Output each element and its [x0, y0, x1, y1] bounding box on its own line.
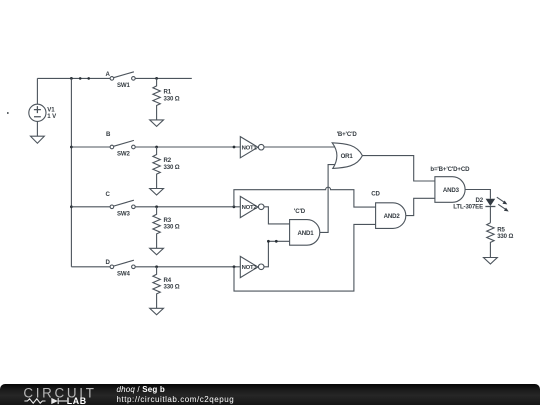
and-gate AND1: [290, 220, 320, 246]
bus vertical wire: [70, 78, 72, 266]
node D branch wire to AND2 lower input: [234, 224, 376, 291]
wire OR1 output to AND3 upper input: [362, 156, 435, 181]
switch SW4: [110, 260, 135, 268]
inverter NOT3: [240, 256, 264, 277]
or-gate OR1: [332, 143, 362, 169]
ground below R5: [484, 258, 498, 265]
junction dot R2 tap: [155, 146, 158, 149]
switch SW2: [110, 140, 135, 148]
and-gate AND3: [435, 177, 465, 203]
svg-text:A: A: [106, 71, 111, 78]
wire AND1 output up to OR1 lower input: [320, 165, 337, 233]
footer bar: [0, 384, 540, 406]
svg-text:AND1: AND1: [298, 230, 315, 237]
wire V1 to bus (row A): [37, 77, 112, 79]
wire SW1 to row A end: [135, 77, 192, 79]
LED D2: [485, 199, 495, 207]
wire AND3 output to LED: [465, 190, 490, 199]
wire LED to R5: [489, 207, 491, 223]
junction dot R4 tap: [155, 265, 158, 268]
svg-text:SW3: SW3: [117, 210, 131, 217]
ground below R1: [150, 120, 164, 127]
wire NOT3 output to AND1 lower input: [264, 241, 290, 266]
svg-text:D: D: [106, 259, 111, 266]
ground below R4: [150, 308, 164, 315]
svg-text:OR1: OR1: [341, 153, 354, 160]
svg-text:NOT2: NOT2: [242, 205, 258, 211]
stray dot: [7, 112, 9, 114]
junction dot R1 tap: [155, 77, 158, 80]
wire join dot row B: [233, 146, 236, 149]
switch SW1: [110, 72, 135, 80]
svg-text:LTL-307EE: LTL-307EE: [453, 204, 483, 211]
wire join dot AND1 lower input: [275, 240, 278, 243]
junction dot bus row C: [70, 205, 73, 208]
wire SW3 to NOT2: [135, 206, 240, 208]
svg-text:NOT1: NOT1: [242, 145, 258, 151]
svg-text:SW4: SW4: [117, 270, 131, 277]
svg-text:AND2: AND2: [384, 213, 401, 220]
svg-text:CD: CD: [371, 190, 380, 197]
junction dot node C branch: [233, 205, 236, 208]
ground below R2: [150, 189, 164, 196]
wire SW4 to NOT3: [135, 266, 240, 268]
wire bus to SW2: [71, 146, 112, 148]
wire SW2 to NOT1: [135, 146, 240, 148]
junction dot node D branch: [233, 265, 236, 268]
voltage source V1: [29, 78, 46, 136]
footer title text: [117, 385, 235, 405]
inverter NOT1: [240, 137, 264, 158]
svg-text:C: C: [106, 191, 111, 198]
inverter NOT2: [240, 196, 264, 217]
resistor R5: [487, 223, 494, 258]
CircuitLab logo: [0, 384, 110, 406]
ground below V1: [31, 136, 45, 143]
svg-text:330 Ω: 330 Ω: [164, 224, 180, 231]
and-gate AND2: [376, 203, 406, 229]
wire NOT2 output to AND1 upper input: [264, 207, 290, 224]
junction dot R3 tap: [155, 205, 158, 208]
node C branch wire to AND2 upper input (hops over vertical): [234, 187, 376, 207]
svg-text:SW1: SW1: [117, 82, 131, 89]
svg-text:SW2: SW2: [117, 151, 131, 158]
wire AND2 output to AND3 lower input: [406, 198, 435, 215]
svg-text:b='B+'C'D+CD: b='B+'C'D+CD: [430, 166, 470, 173]
svg-text:'C'D: 'C'D: [294, 208, 306, 215]
wire NOT1 output to OR1: [264, 146, 336, 148]
wire bus to SW4: [71, 266, 112, 268]
svg-text:NOT3: NOT3: [242, 265, 258, 271]
ground below R3: [150, 248, 164, 255]
svg-text:LAB: LAB: [67, 395, 87, 405]
svg-text:'B+'C'D: 'B+'C'D: [337, 131, 358, 138]
svg-text:330 Ω: 330 Ω: [164, 164, 180, 171]
svg-text:330 Ω: 330 Ω: [164, 284, 180, 291]
svg-text:1 V: 1 V: [47, 113, 57, 120]
LED light arrow 2: [498, 204, 505, 209]
wire bus to SW3: [71, 206, 112, 208]
resistor R2: [153, 147, 160, 189]
resistor R1: [153, 78, 160, 120]
switch SW3: [110, 200, 135, 208]
svg-text:330 Ω: 330 Ω: [164, 95, 180, 102]
wire segment join dots row A: [79, 77, 82, 80]
resistor R3: [153, 207, 160, 249]
resistor R4: [153, 267, 160, 309]
junction dot bus row B: [70, 146, 73, 149]
svg-text:B: B: [106, 131, 111, 138]
svg-text:330 Ω: 330 Ω: [497, 233, 513, 240]
node junction dot bus top: [70, 77, 73, 80]
junction dot AND1 lower wire corner: [267, 240, 270, 243]
svg-text:AND3: AND3: [443, 187, 460, 194]
LED light arrow 1: [497, 197, 504, 202]
